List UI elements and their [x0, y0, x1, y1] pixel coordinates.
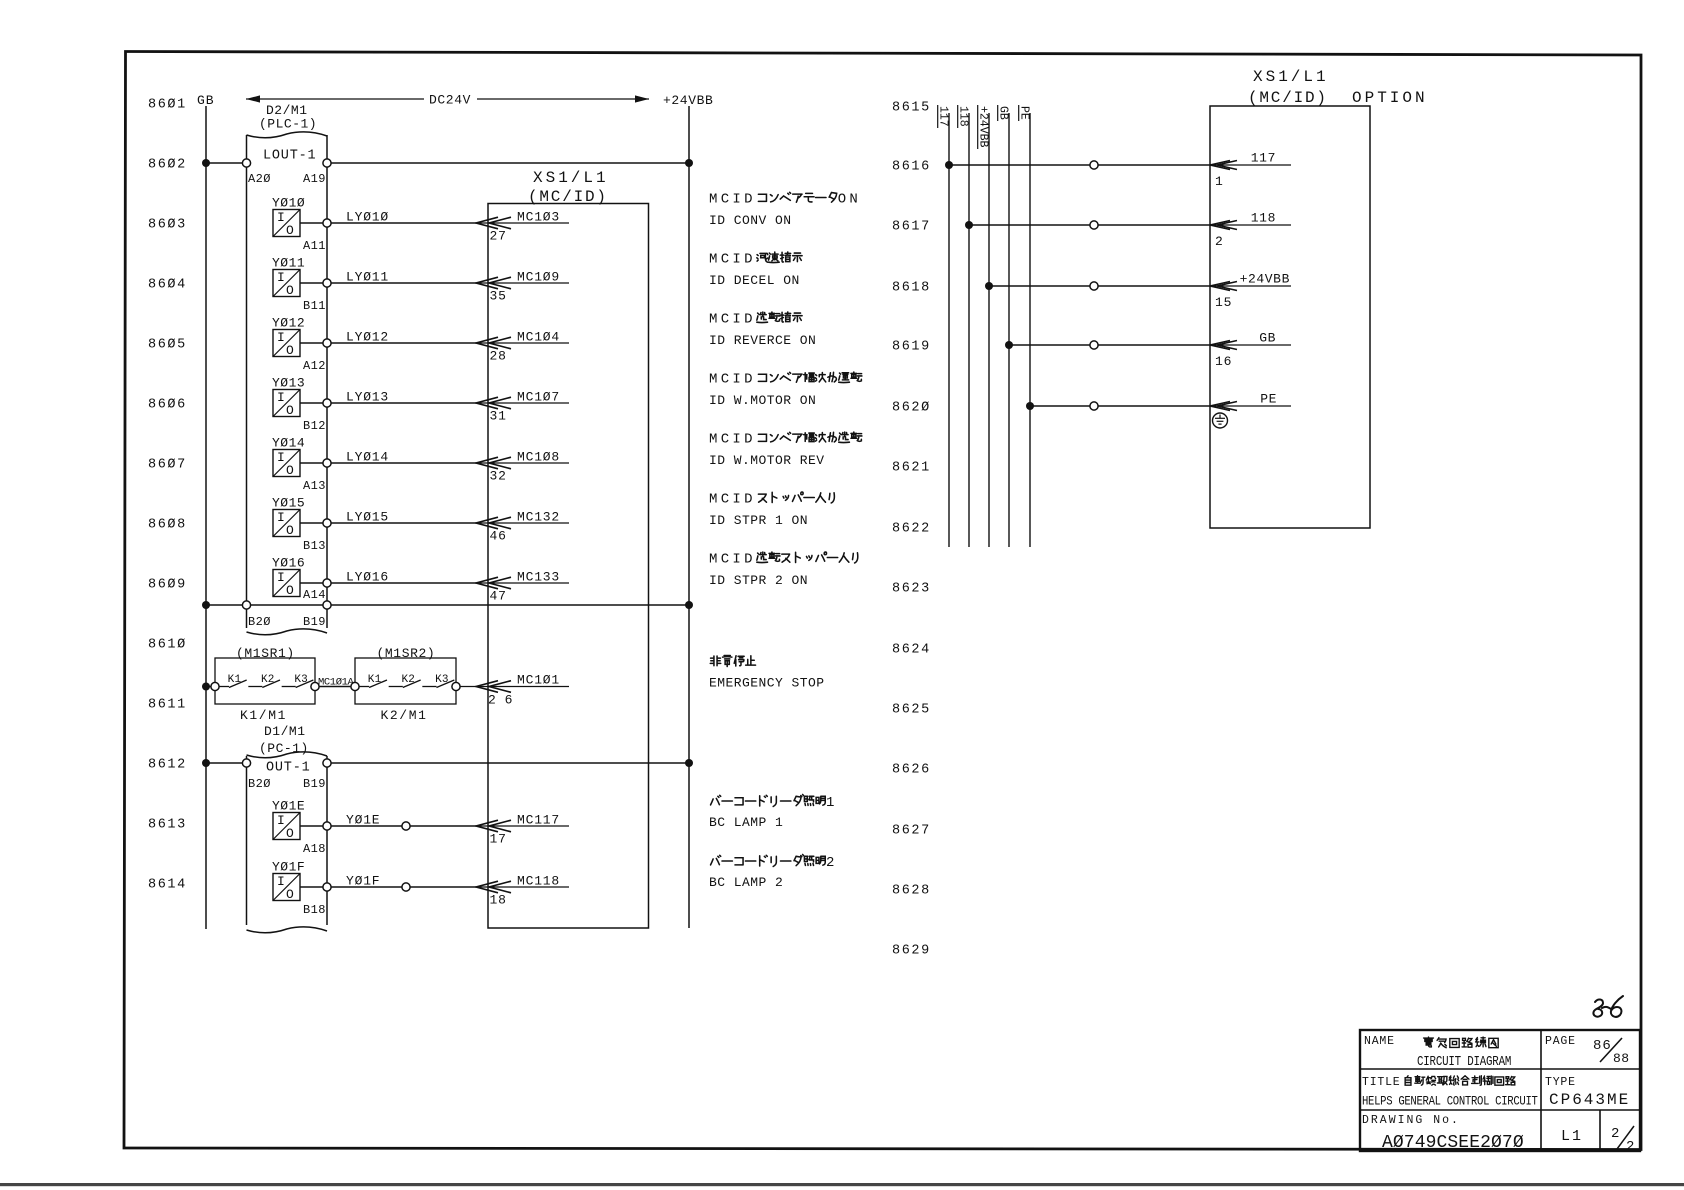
wire LY016 — [331, 570, 476, 585]
svg-text:8613: 8613 — [148, 818, 187, 833]
svg-text:I: I — [732, 432, 740, 448]
pin 32 wire MC108 — [476, 450, 569, 484]
node junction GB — [1090, 341, 1098, 349]
svg-text:YØ1Ø: YØ1Ø — [272, 196, 305, 211]
pin A11 — [303, 219, 331, 253]
svg-text:C: C — [721, 372, 729, 388]
node junction Y01F — [402, 883, 410, 891]
svg-text:(PC-1): (PC-1) — [259, 741, 309, 756]
pin A20 — [242, 159, 270, 186]
svg-text:I: I — [277, 450, 285, 465]
svg-text:35: 35 — [490, 289, 507, 304]
node junction +24VBB — [1090, 282, 1098, 290]
svg-text:(MC/ID): (MC/ID) — [1248, 89, 1328, 107]
svg-text:28: 28 — [490, 349, 507, 364]
svg-text:O: O — [286, 583, 294, 598]
svg-text:C: C — [721, 252, 729, 268]
svg-text:8624: 8624 — [892, 643, 931, 658]
svg-text:27: 27 — [490, 229, 507, 244]
svg-text:YØ11: YØ11 — [272, 256, 305, 271]
svg-text:I: I — [732, 192, 740, 208]
pin A13 — [303, 459, 331, 493]
svg-text:MC132: MC132 — [517, 510, 560, 525]
label ID STPR 1 ON — [709, 492, 834, 529]
svg-text:CIRCUIT DIAGRAM: CIRCUIT DIAGRAM — [1417, 1054, 1511, 1070]
pin B12 — [303, 399, 331, 433]
svg-text:861Ø: 861Ø — [148, 638, 187, 653]
title block TYPE cell — [1545, 1076, 1630, 1109]
label ID STPR 2 ON — [709, 552, 858, 589]
svg-text:C: C — [721, 492, 729, 508]
svg-text:LYØ16: LYØ16 — [346, 570, 389, 585]
title block sheet L1 — [1561, 1128, 1583, 1145]
svg-text:MC1Ø8: MC1Ø8 — [517, 450, 560, 465]
pin 1 (117) — [1210, 151, 1291, 190]
svg-text:C: C — [721, 312, 729, 328]
svg-text:MC1Ø3: MC1Ø3 — [517, 210, 560, 225]
svg-text:15: 15 — [1215, 295, 1232, 310]
svg-text:O: O — [286, 523, 294, 538]
svg-text:M: M — [709, 552, 717, 568]
svg-text:8615: 8615 — [892, 101, 931, 116]
svg-text:K3: K3 — [435, 674, 449, 686]
svg-text:ID STPR 2 ON: ID STPR 2 ON — [709, 573, 808, 588]
svg-text:OPTION: OPTION — [1352, 89, 1428, 107]
wire Y01E — [331, 813, 476, 828]
pin PE with protective earth symbol — [1210, 392, 1291, 429]
wire LY013 — [331, 390, 476, 405]
svg-text:GB: GB — [197, 93, 215, 108]
svg-text:A12: A12 — [303, 359, 326, 373]
svg-text:C: C — [721, 192, 729, 208]
I/O module Y012 — [272, 316, 323, 359]
svg-text:86Ø2: 86Ø2 — [148, 158, 187, 173]
svg-text:K1: K1 — [228, 674, 242, 686]
svg-text:CP643ME: CP643ME — [1549, 1091, 1630, 1109]
svg-text:ID CONV ON: ID CONV ON — [709, 213, 792, 228]
svg-text:K1/M1: K1/M1 — [240, 708, 287, 723]
net PE (option bus) — [1017, 105, 1030, 547]
svg-text:86Ø6: 86Ø6 — [148, 398, 187, 413]
node junction Y01E — [402, 822, 410, 830]
svg-text:B13: B13 — [303, 539, 326, 553]
pin A19 — [303, 159, 331, 186]
svg-text:GB: GB — [1259, 331, 1276, 346]
pin 17 wire MC117 — [476, 813, 569, 847]
pin B19 — [303, 601, 331, 629]
pin B11 — [303, 279, 331, 313]
svg-text:2: 2 — [1626, 1139, 1635, 1155]
svg-text:I: I — [277, 874, 285, 889]
svg-text:K2/M1: K2/M1 — [381, 708, 428, 723]
svg-text:A13: A13 — [303, 479, 326, 493]
svg-text:LYØ1Ø: LYØ1Ø — [346, 210, 389, 225]
svg-text:8627: 8627 — [892, 824, 931, 839]
svg-text:A2Ø: A2Ø — [248, 172, 271, 186]
svg-text:YØ1F: YØ1F — [346, 874, 380, 889]
svg-text:TITLE: TITLE — [1362, 1076, 1401, 1089]
svg-text:M: M — [709, 312, 717, 328]
svg-text:N: N — [849, 192, 857, 208]
svg-text:D: D — [744, 492, 752, 508]
pin B13 — [303, 519, 331, 553]
svg-text:B19: B19 — [303, 777, 326, 791]
svg-text:M: M — [709, 492, 717, 508]
net 118 (option bus) — [956, 105, 969, 547]
svg-text:K1: K1 — [368, 674, 382, 686]
svg-text:O: O — [286, 463, 294, 478]
svg-text:B18: B18 — [303, 903, 326, 917]
svg-text:MC1Ø1: MC1Ø1 — [517, 673, 560, 688]
I/O module Y010 — [272, 196, 323, 239]
net 117 (option bus) — [936, 105, 949, 547]
svg-text:I: I — [277, 813, 285, 828]
svg-text:MC1Ø4: MC1Ø4 — [517, 330, 560, 345]
svg-text:8625: 8625 — [892, 703, 931, 718]
svg-text:M: M — [709, 432, 717, 448]
svg-text:86Ø9: 86Ø9 — [148, 578, 187, 593]
svg-text:NAME: NAME — [1364, 1035, 1395, 1048]
pin B20 (OUT-1) — [242, 759, 270, 791]
svg-text:ID STPR 1 ON: ID STPR 1 ON — [709, 513, 808, 528]
svg-text:8618: 8618 — [892, 281, 931, 296]
svg-text:D1/M1: D1/M1 — [264, 724, 306, 739]
svg-text:K3: K3 — [294, 674, 308, 686]
connector XS1/L1 (MC/ID) OPTION — [1210, 68, 1428, 528]
label BC LAMP 2 — [709, 855, 834, 891]
svg-text:O: O — [286, 826, 294, 841]
node junction 118 — [1090, 221, 1098, 229]
node junction PE — [1090, 402, 1098, 410]
scan edge strip — [0, 1183, 1684, 1186]
svg-text:O: O — [286, 343, 294, 358]
pin A12 — [303, 339, 331, 373]
PLC connector D2/M1 (PLC-1) LOUT-1 — [247, 103, 328, 635]
svg-text:HELPS GENERAL CONTROL CIRCUIT: HELPS GENERAL CONTROL CIRCUIT — [1362, 1093, 1538, 1108]
wire LY014 — [331, 450, 476, 465]
wire Y01F — [331, 874, 476, 889]
pin 47 wire MC133 — [476, 570, 569, 604]
svg-text:C: C — [721, 432, 729, 448]
I/O module Y011 — [272, 256, 323, 299]
svg-text:2 6: 2 6 — [488, 693, 513, 708]
svg-text:1: 1 — [826, 795, 834, 811]
svg-text:BC LAMP 1: BC LAMP 1 — [709, 815, 783, 830]
net GB (option bus) — [996, 105, 1009, 547]
pin 2 (118) — [1210, 211, 1291, 250]
svg-text:B2Ø: B2Ø — [248, 777, 271, 791]
wire LY010 — [331, 210, 476, 225]
svg-text:LYØ11: LYØ11 — [346, 270, 389, 285]
pin 28 wire MC104 — [476, 330, 569, 364]
svg-text:YØ15: YØ15 — [272, 496, 305, 511]
svg-text:8611: 8611 — [148, 698, 187, 713]
svg-text:YØ12: YØ12 — [272, 316, 305, 331]
wire 8611 emergency stop chain — [202, 683, 351, 691]
svg-text:LYØ12: LYØ12 — [346, 330, 389, 345]
svg-text:88: 88 — [1613, 1051, 1630, 1066]
svg-text:O: O — [286, 283, 294, 298]
pin 27 wire MC103 — [476, 210, 569, 244]
svg-text:(M1SR2): (M1SR2) — [377, 646, 436, 661]
svg-text:D: D — [744, 552, 752, 568]
svg-text:BC LAMP 2: BC LAMP 2 — [709, 875, 783, 890]
pin 35 wire MC109 — [476, 270, 569, 304]
title block TITLE cell — [1362, 1076, 1538, 1109]
svg-text:A11: A11 — [303, 239, 326, 253]
pin 16 (GB) — [1210, 331, 1291, 370]
svg-text:O: O — [286, 887, 294, 902]
svg-text:8628: 8628 — [892, 884, 931, 899]
svg-text:B2Ø: B2Ø — [248, 615, 271, 629]
svg-text:17: 17 — [490, 832, 507, 847]
relay contacts M1SR1 (K1/M1) — [211, 646, 319, 723]
svg-text:D: D — [744, 372, 752, 388]
svg-text:86Ø4: 86Ø4 — [148, 278, 187, 293]
svg-text:86Ø8: 86Ø8 — [148, 518, 187, 533]
svg-text:862Ø: 862Ø — [892, 401, 931, 416]
svg-text:LYØ13: LYØ13 — [346, 390, 389, 405]
svg-text:(PLC-1): (PLC-1) — [259, 117, 317, 132]
svg-text:YØ1E: YØ1E — [346, 813, 380, 828]
svg-text:C: C — [721, 552, 729, 568]
svg-text:ID W.MOTOR ON: ID W.MOTOR ON — [709, 393, 816, 408]
svg-text:86Ø7: 86Ø7 — [148, 458, 187, 473]
pin 15 (+24VBB) — [1210, 272, 1291, 311]
svg-text:A14: A14 — [303, 588, 326, 602]
label ID W.MOTOR REV — [709, 432, 862, 469]
svg-text:M: M — [709, 192, 717, 208]
svg-text:2: 2 — [826, 855, 834, 871]
svg-text:I: I — [732, 552, 740, 568]
pin 26 wire MC101 — [460, 673, 569, 708]
wire 8602 GB to +24VBB through LOUT-1 — [202, 159, 693, 167]
svg-text:I: I — [732, 312, 740, 328]
svg-text:1: 1 — [1215, 174, 1224, 189]
svg-text:(M1SR1): (M1SR1) — [236, 646, 295, 661]
wire row 8617 (118) — [965, 221, 1210, 229]
svg-text:D: D — [744, 252, 752, 268]
I/O module Y013 — [272, 376, 323, 419]
svg-text:M: M — [709, 252, 717, 268]
pin 18 wire MC118 — [476, 874, 569, 908]
svg-text:2: 2 — [1215, 234, 1224, 249]
svg-text:EMERGENCY STOP: EMERGENCY STOP — [709, 676, 825, 691]
svg-text:+24VBB: +24VBB — [1240, 272, 1290, 287]
svg-text:LYØ15: LYØ15 — [346, 510, 389, 525]
svg-text:8629: 8629 — [892, 944, 931, 959]
svg-text:B19: B19 — [303, 615, 326, 629]
svg-text:I: I — [277, 270, 285, 285]
svg-text:8614: 8614 — [148, 878, 187, 893]
svg-text:46: 46 — [490, 529, 507, 544]
svg-text:I: I — [277, 210, 285, 225]
svg-text:YØ13: YØ13 — [272, 376, 305, 391]
wire LY011 — [331, 270, 476, 285]
svg-text:31: 31 — [490, 409, 507, 424]
svg-text:XS1/L1: XS1/L1 — [533, 169, 609, 187]
wire row 8616 (117) — [945, 161, 1210, 169]
svg-text:DRAWING No.: DRAWING No. — [1362, 1114, 1460, 1127]
title block DRAWING No cell — [1362, 1114, 1524, 1153]
label ID W.MOTOR ON — [709, 372, 862, 409]
svg-text:DC24V: DC24V — [429, 93, 471, 108]
title block sheet 2/2 — [1611, 1126, 1635, 1155]
svg-text:K2: K2 — [261, 674, 275, 686]
PLC connector D1/M1 (PC-1) OUT-1 — [247, 724, 328, 933]
svg-text:XS1/L1: XS1/L1 — [1253, 68, 1329, 86]
svg-text:L1: L1 — [1561, 1128, 1583, 1145]
svg-text:47: 47 — [490, 589, 507, 604]
I/O module Y01F — [272, 860, 323, 903]
svg-text:YØ16: YØ16 — [272, 556, 305, 571]
svg-text:32: 32 — [490, 469, 507, 484]
pin 31 wire MC107 — [476, 390, 569, 424]
relay contacts M1SR2 (K2/M1) — [351, 646, 460, 723]
svg-text:I: I — [277, 510, 285, 525]
svg-text:D: D — [744, 432, 752, 448]
svg-text:O: O — [286, 403, 294, 418]
svg-text:I: I — [732, 372, 740, 388]
I/O module Y01E — [272, 799, 323, 842]
svg-text:A18: A18 — [303, 842, 326, 856]
label ID DECEL ON — [709, 252, 802, 289]
I/O module Y016 — [272, 556, 323, 599]
connector XS1/L1 (MC/ID) — [488, 169, 649, 928]
svg-text:I: I — [277, 570, 285, 585]
svg-text:I: I — [277, 390, 285, 405]
pin B20 — [242, 601, 270, 629]
label ID CONV ON — [709, 192, 858, 229]
svg-text:118: 118 — [1251, 211, 1276, 226]
svg-text:YØ1F: YØ1F — [272, 860, 305, 875]
svg-text:ID W.MOTOR REV: ID W.MOTOR REV — [709, 453, 825, 468]
svg-text:K2: K2 — [401, 674, 415, 686]
svg-text:8623: 8623 — [892, 582, 931, 597]
svg-text:117: 117 — [1251, 151, 1276, 166]
svg-text:MC1Ø9: MC1Ø9 — [517, 270, 560, 285]
wire DC24V span arrow — [246, 93, 649, 108]
svg-text:D: D — [744, 192, 752, 208]
svg-text:B11: B11 — [303, 299, 326, 313]
svg-text:2: 2 — [1611, 1126, 1620, 1142]
svg-text:D: D — [744, 312, 752, 328]
svg-text:O: O — [838, 192, 846, 208]
svg-text:YØ1E: YØ1E — [272, 799, 305, 814]
line number labels 8615-8629 — [892, 101, 931, 959]
svg-text:MC133: MC133 — [517, 570, 560, 585]
svg-text:LYØ14: LYØ14 — [346, 450, 389, 465]
svg-text:+24VBB: +24VBB — [663, 93, 713, 108]
svg-text:I: I — [277, 330, 285, 345]
svg-text:ID REVERCE ON: ID REVERCE ON — [709, 333, 816, 348]
svg-text:8616: 8616 — [892, 160, 931, 175]
svg-text:8612: 8612 — [148, 758, 187, 773]
net +24VBB (option bus) — [976, 105, 989, 547]
svg-text:I: I — [732, 252, 740, 268]
title block NAME cell — [1364, 1035, 1511, 1069]
label EMERGENCY STOP — [709, 656, 825, 691]
label BC LAMP 1 — [709, 795, 834, 831]
svg-text:TYPE: TYPE — [1545, 1076, 1576, 1089]
title block frame — [1360, 1030, 1640, 1151]
svg-text:MC118: MC118 — [517, 874, 560, 889]
svg-text:LOUT-1: LOUT-1 — [263, 149, 316, 164]
svg-text:PE: PE — [1260, 392, 1277, 407]
svg-text:YØ14: YØ14 — [272, 436, 305, 451]
svg-text:86Ø3: 86Ø3 — [148, 218, 187, 233]
wire row 8619 (GB) — [1005, 341, 1210, 349]
svg-text:AØ749CSEE2Ø7Ø: AØ749CSEE2Ø7Ø — [1382, 1133, 1524, 1153]
svg-text:16: 16 — [1215, 354, 1232, 369]
label ID REVERCE ON — [709, 312, 816, 349]
svg-text:MC1Ø1A: MC1Ø1A — [318, 677, 355, 689]
wire row 8618 (+24VBB) — [985, 282, 1210, 290]
svg-text:86Ø5: 86Ø5 — [148, 338, 187, 353]
svg-text:OUT-1: OUT-1 — [266, 761, 311, 776]
svg-text:M: M — [709, 372, 717, 388]
svg-text:8617: 8617 — [892, 220, 931, 235]
svg-text:8622: 8622 — [892, 522, 931, 537]
svg-text:8626: 8626 — [892, 763, 931, 778]
svg-text:A19: A19 — [303, 172, 326, 186]
svg-text:I: I — [732, 492, 740, 508]
wire row 8620 (PE) — [1026, 402, 1210, 410]
svg-text:O: O — [286, 223, 294, 238]
wire common return B20-B19 — [202, 601, 693, 609]
I/O module Y014 — [272, 436, 323, 479]
svg-text:MC1Ø7: MC1Ø7 — [517, 390, 560, 405]
net GB (left supply rail) — [197, 93, 215, 929]
pin A14 — [303, 579, 331, 602]
pin B19 (OUT-1) — [303, 759, 331, 791]
svg-text:8621: 8621 — [892, 461, 931, 476]
node junction 117 — [1090, 161, 1098, 169]
pin 46 wire MC132 — [476, 510, 569, 544]
svg-text:B12: B12 — [303, 419, 326, 433]
title block PAGE cell — [1545, 1035, 1630, 1066]
svg-text:86Ø1: 86Ø1 — [148, 98, 187, 113]
wire 8612 — [202, 759, 693, 767]
line number labels 8601-8614 — [148, 98, 187, 893]
I/O module Y015 — [272, 496, 323, 539]
wire LY015 — [331, 510, 476, 525]
wire LY012 — [331, 330, 476, 345]
svg-text:18: 18 — [490, 893, 507, 908]
svg-text:MC117: MC117 — [517, 813, 560, 828]
svg-text:PAGE: PAGE — [1545, 1035, 1576, 1048]
net +24VBB (right supply rail) — [663, 93, 713, 928]
svg-text:8619: 8619 — [892, 340, 931, 355]
pin B18 — [303, 883, 331, 917]
svg-text:ID DECEL ON: ID DECEL ON — [709, 273, 800, 288]
pin A18 — [303, 822, 331, 856]
handwritten page mark 86 — [1593, 996, 1623, 1017]
